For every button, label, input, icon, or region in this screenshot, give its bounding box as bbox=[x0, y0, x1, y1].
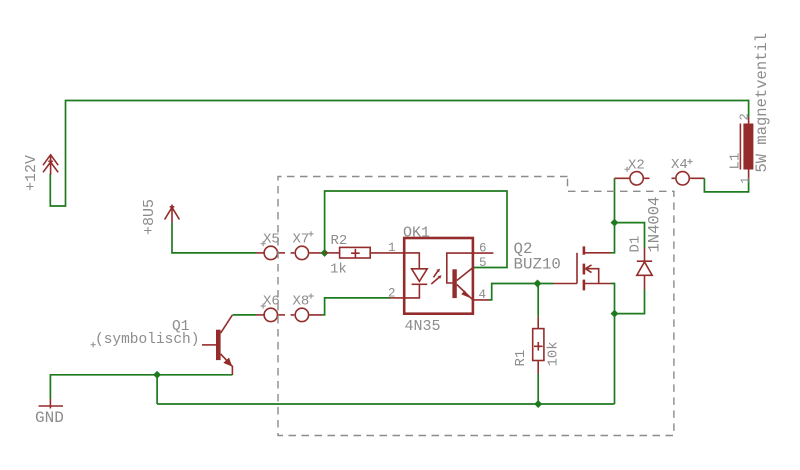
wire junction down to bus bbox=[156, 375, 158, 404]
origin cross Q1 bbox=[91, 342, 96, 347]
OK1 pin2 stub bbox=[390, 297, 405, 299]
resistor R2 bbox=[325, 247, 405, 258]
pad X2 bbox=[615, 172, 650, 185]
origin cross X8 bbox=[308, 293, 313, 298]
svg-text:+12V: +12V bbox=[23, 155, 40, 191]
svg-text:R2: R2 bbox=[331, 233, 348, 249]
OK1 pin4 stub and wire to gate line bbox=[473, 299, 489, 301]
diode D1 bbox=[637, 248, 652, 290]
svg-text:X2: X2 bbox=[628, 158, 645, 174]
wire X7 junction loop to OK1 pin5 bbox=[325, 191, 507, 268]
pad X6 bbox=[256, 308, 285, 321]
svg-text:4N35: 4N35 bbox=[405, 318, 441, 335]
origin cross X7 bbox=[308, 231, 313, 236]
resistor R1 bbox=[533, 284, 544, 405]
svg-text:R1: R1 bbox=[513, 350, 529, 367]
pad X8 bbox=[291, 308, 323, 321]
svg-text:(symbolisch): (symbolisch) bbox=[95, 332, 199, 348]
junction R1 bottom bbox=[534, 400, 542, 408]
supply +8U5 arrow bbox=[165, 205, 180, 223]
junction source/D1 bbox=[611, 310, 619, 318]
wire +12V net top bus bbox=[50, 101, 748, 207]
svg-text:+8U5: +8U5 bbox=[141, 199, 158, 235]
svg-text:1N4004: 1N4004 bbox=[646, 197, 664, 253]
wire X8 to OK1 pin2 bbox=[322, 298, 389, 315]
svg-text:5: 5 bbox=[479, 256, 487, 270]
inductor L1 bbox=[740, 117, 753, 179]
svg-text:X5: X5 bbox=[263, 232, 280, 248]
wire +8U5 to X5 bbox=[172, 223, 256, 253]
pad X4 bbox=[672, 172, 705, 185]
ground bbox=[39, 399, 64, 409]
wire D1 anode to source junction bbox=[615, 290, 645, 314]
svg-text:X6: X6 bbox=[263, 294, 280, 310]
svg-text:BUZ10: BUZ10 bbox=[514, 255, 561, 273]
svg-text:X4: X4 bbox=[671, 157, 688, 173]
origin cross X6 bbox=[261, 303, 266, 308]
optocoupler OK1 box bbox=[404, 238, 473, 314]
svg-text:GND: GND bbox=[35, 409, 64, 427]
svg-text:2: 2 bbox=[388, 287, 396, 301]
origin cross X2 bbox=[625, 167, 630, 172]
origin cross X5 bbox=[261, 241, 266, 246]
dashed board outline bbox=[278, 177, 674, 436]
OK1 LED bbox=[404, 253, 427, 298]
wire source down to bottom bus bbox=[611, 284, 615, 405]
pad X7 bbox=[291, 246, 323, 259]
wire GND / emitter bbox=[50, 375, 232, 399]
transistor Q1 bbox=[202, 315, 232, 375]
origin cross X4 bbox=[687, 159, 692, 164]
svg-text:X8: X8 bbox=[293, 294, 310, 310]
pad X5 bbox=[256, 246, 285, 259]
supply +12V arrow bbox=[43, 155, 58, 175]
svg-text:2: 2 bbox=[738, 113, 752, 120]
svg-text:1: 1 bbox=[388, 241, 396, 255]
wire drain to X2 junction bbox=[611, 178, 615, 253]
svg-text:1k: 1k bbox=[330, 262, 347, 278]
junction drain/X2/D1 bbox=[611, 219, 619, 227]
svg-text:1: 1 bbox=[739, 177, 753, 184]
OK1 phototransistor bbox=[447, 253, 473, 300]
wire pin4 to gate/R1 junction bbox=[489, 284, 554, 300]
svg-text:5W magnetventil: 5W magnetventil bbox=[753, 33, 771, 173]
svg-text:OK1: OK1 bbox=[403, 225, 430, 242]
svg-text:L1: L1 bbox=[728, 153, 744, 170]
wire X4 to L1 bottom bbox=[704, 178, 748, 192]
junction R1 top bbox=[534, 280, 542, 288]
transistor Q2 MOSFET bbox=[554, 246, 612, 290]
wire Q1 collector to X6 bbox=[233, 314, 256, 316]
wire junction to D1 cathode bbox=[615, 223, 645, 248]
svg-text:X7: X7 bbox=[293, 232, 310, 248]
OK1 pin6 stub bbox=[473, 252, 494, 254]
bottom bus wire bbox=[157, 403, 614, 405]
svg-text:D1: D1 bbox=[628, 236, 644, 253]
junction X7/R2 bbox=[321, 249, 329, 257]
junction emitter wire bbox=[153, 371, 161, 379]
OK1 light arrows bbox=[431, 269, 441, 284]
svg-text:10k: 10k bbox=[546, 341, 562, 366]
